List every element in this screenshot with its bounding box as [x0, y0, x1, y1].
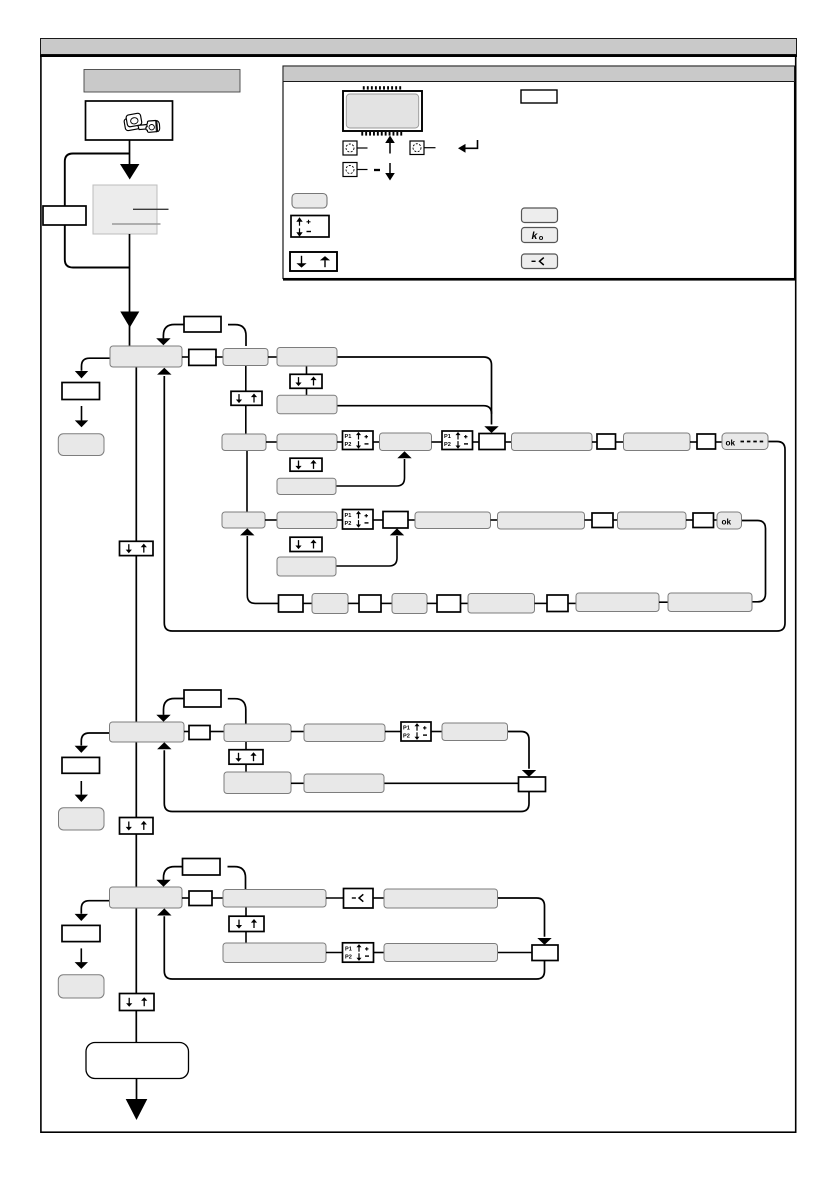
wire box3 down chain [306, 366, 308, 395]
legend thick bottom rule [283, 278, 796, 281]
conn E3-w3 [686, 519, 693, 521]
s2 left label box [62, 757, 100, 773]
s1 jump wire right into box2 [228, 325, 246, 346]
s3 back icon box [344, 889, 374, 909]
row3 boxB3 [277, 512, 337, 529]
start box (key press) [86, 101, 173, 140]
s1 gray under boxB [277, 478, 336, 494]
LCD display inner [346, 94, 418, 128]
wire row4 up into boxA3 [247, 536, 278, 603]
left bypass loop wire [65, 154, 130, 268]
s2 return loop wire [164, 750, 529, 811]
legend header gray bar [283, 66, 795, 82]
row4 gray 1 [312, 594, 348, 614]
end terminal rounded box [86, 1043, 189, 1079]
row4 gray 2 [392, 594, 427, 614]
conn s3 pp5-g2 [373, 952, 384, 954]
s3 row1 white node [189, 891, 212, 906]
s1 trunk dua box [120, 541, 154, 555]
conn w2-E3 [613, 519, 618, 521]
s1 gray under boxB3 [277, 557, 336, 576]
arrow into left label [75, 371, 88, 378]
svg-text:ok: ok [726, 439, 736, 448]
conn [659, 601, 668, 603]
conn [348, 602, 359, 604]
display text line 2 [112, 223, 161, 225]
s3 left gray result box [58, 975, 104, 998]
conn menu3-white [182, 897, 189, 899]
s2 boxB2 [224, 724, 291, 742]
svg-text:o: o [539, 233, 544, 242]
s3 jump wire right into boxB3s [228, 867, 246, 890]
row2 boxE [624, 433, 691, 451]
menu1 left elbow wire [82, 358, 111, 371]
row2 white node 2 [597, 434, 616, 449]
initial display state box [93, 185, 157, 234]
s3 boxB3s [223, 890, 326, 908]
s2 left arrow wire [80, 781, 82, 795]
s3 jump arrow down [156, 880, 170, 887]
row2 boxB [277, 434, 337, 451]
row3 ok box [717, 512, 742, 529]
s2 dua under B2 [229, 750, 263, 765]
s1 dua box under box2 [231, 391, 262, 405]
arrow up into row3 white [390, 528, 404, 535]
conn B3-pp3 [337, 519, 343, 521]
s1 left gray result box [58, 434, 104, 456]
wire box2 down chain [245, 366, 247, 435]
s2 top jump label box [184, 690, 221, 707]
row2 boxC [380, 433, 432, 451]
s3 left arrow head [75, 962, 88, 969]
row3 P1P2 box [343, 510, 374, 530]
s1 return loop wire [164, 376, 785, 631]
row2 boxA [222, 434, 266, 451]
s2 row1 white node [189, 726, 210, 740]
conn [381, 602, 392, 604]
bypass label box [43, 206, 86, 225]
row4 white 4 [547, 595, 568, 612]
LCD top pins [363, 86, 401, 89]
conn white-B3s [212, 897, 223, 899]
s3 top jump label box [183, 859, 221, 876]
row3 boxD3 [498, 512, 585, 529]
conn B2-C2 [291, 731, 304, 733]
conn pp2-white [473, 441, 480, 443]
conn C-pp2 [432, 441, 443, 443]
s1 dua under boxB [290, 458, 322, 471]
conn pp1-C [373, 441, 380, 443]
s2 return arrow up into menu2 [157, 742, 171, 749]
wire key box to arrow [129, 140, 131, 167]
row4 gray 3 [468, 594, 535, 614]
s3 elbow C3s to collect [498, 898, 545, 937]
end wire [136, 1079, 138, 1102]
legend button 3 [343, 163, 368, 177]
conn pp3-w [373, 519, 383, 521]
legend down arrow [385, 163, 395, 181]
row2 ok dashed box [722, 433, 768, 450]
legend button 1 [343, 141, 368, 155]
s2 row2 gray 2 [304, 774, 384, 793]
row3 white node 3 [693, 513, 714, 528]
conn B3s-icon [326, 897, 344, 899]
menu 1 box [110, 346, 182, 367]
LCD bottom pins [361, 132, 402, 136]
arrow up into boxC [397, 451, 411, 458]
legend minus [374, 169, 380, 171]
s1 left arrow wire [81, 406, 83, 421]
svg-text:ok: ok [722, 518, 732, 527]
s3 P1P2 box [343, 943, 374, 962]
conn E-w3 [690, 441, 697, 443]
legend ko button [522, 228, 558, 243]
s2 jump wire right into boxB2 [228, 699, 246, 724]
arrow into s3 left label [75, 914, 88, 921]
s2 trunk dua box [120, 818, 154, 835]
conn [303, 602, 312, 604]
legend back button [522, 254, 558, 269]
s3 left arrow wire [80, 948, 82, 962]
s1 jump wire left into menu1 [163, 325, 184, 339]
menu2 left elbow wire [81, 733, 109, 746]
conn menu2-white [184, 731, 189, 733]
s3 return loop wire [164, 916, 544, 979]
row4 white 3 [437, 595, 461, 612]
s1 left arrow head [75, 420, 88, 427]
wire box3 long right into collect [337, 357, 492, 425]
row4 gray 4 [576, 593, 659, 612]
s2 P1P2 box [401, 722, 431, 741]
conn pp4-D2 [431, 731, 442, 733]
conn icon-C3s [373, 897, 384, 899]
trunk wire menu3 to end [135, 908, 137, 1043]
end big arrow [126, 1099, 148, 1120]
legend frame [283, 66, 795, 279]
s3 left label box [62, 925, 100, 941]
section title gray bar [84, 70, 240, 93]
conn [461, 602, 469, 604]
conn white-B2 [210, 731, 224, 733]
row4 white 1 [279, 595, 304, 612]
big arrow into display state [120, 164, 139, 180]
legend return arrow [458, 140, 478, 153]
trunk wire display to menu 1 [129, 234, 131, 346]
arrow into row2 white node [484, 426, 498, 433]
conn B-pp1 [337, 441, 343, 443]
conn A-B [266, 441, 277, 443]
s1 box3 [277, 348, 337, 367]
s2 left arrow head [75, 795, 88, 802]
s2 row2 gray 1 [224, 772, 291, 794]
conn white-box2 [215, 356, 223, 358]
trunk wire menu2 to menu3 [135, 742, 137, 887]
conn D-w2 [592, 441, 597, 443]
row2 P1P2 box 1 [343, 431, 374, 450]
menu3 left elbow wire [81, 901, 109, 914]
s1 ok loop into row4 [742, 521, 766, 602]
s1 top jump label box [184, 317, 221, 333]
s3 boxC3s [384, 889, 498, 908]
s1 gray under box3 [277, 395, 337, 414]
s2 boxC2 [304, 724, 385, 742]
row4 arrow up [240, 528, 254, 535]
arrow into s2 left label [75, 746, 88, 753]
s1 dua box under box3 [290, 374, 322, 388]
row4 white 2 [359, 595, 381, 612]
menu 2 box [110, 722, 185, 742]
wire underB gray to boxC [336, 459, 405, 486]
s3 row2 wire to collect [498, 952, 533, 954]
s3 row2 gray 1 [223, 943, 326, 963]
s1 return arrow up into menu1 [157, 368, 171, 375]
conn C2-pp4 [385, 731, 401, 733]
wire under-box3 gray to collect [337, 406, 492, 414]
trunk wire menu1 to menu2 [135, 367, 137, 722]
conn w2-E [616, 441, 624, 443]
wire underB3 gray to row3 white [336, 536, 397, 566]
s1 left label box [62, 383, 100, 400]
s3 dua under B3s [229, 916, 264, 931]
conn w-C3 [408, 519, 415, 521]
row3 boxA3 [222, 512, 265, 528]
s2 jump wire left [164, 699, 185, 715]
conn w3-ok [716, 441, 723, 443]
s2 jump arrow down [156, 715, 170, 722]
legend gray button r1 [522, 208, 558, 223]
s2 boxB2 down chain wire [245, 742, 247, 773]
s3 trunk dua box [120, 994, 155, 1011]
thick black rule under header bar [40, 55, 797, 57]
legend plus-minus box [291, 216, 329, 238]
legend small white rect [521, 90, 557, 103]
row2 collect white node [479, 434, 505, 450]
row2 boxD [512, 433, 593, 451]
menu 3 box [110, 887, 183, 908]
s2 elbow D2 to collect [508, 732, 530, 769]
wire boxA down to boxA3 [246, 451, 248, 513]
s1 row1 white node [189, 349, 216, 365]
s2 collect white node [519, 777, 546, 792]
s2 row2 wire to collect [384, 782, 519, 784]
display text line 1 [133, 208, 169, 210]
s3 boxB3s down chain wire [245, 907, 247, 943]
s2 left gray result box [59, 808, 105, 830]
conn [568, 602, 576, 604]
s3 row2 gray 2 [384, 944, 498, 962]
conn D3-w2 [585, 519, 593, 521]
conn [535, 602, 548, 604]
row2 P1P2 box 2 [442, 431, 473, 450]
row3 white node 2 [592, 513, 613, 528]
s1 dua under boxB3 [290, 537, 322, 551]
row4 gray 5 [668, 593, 752, 612]
s3 arrow into collect node [537, 938, 551, 945]
legend up arrow [385, 136, 395, 154]
conn w3-ok3 [714, 519, 718, 521]
conn white-D [505, 441, 512, 443]
LCD display outer [343, 91, 422, 131]
row2 white node 3 [697, 434, 716, 449]
legend gray key button left [292, 194, 327, 209]
legend button 2 [410, 141, 436, 155]
s2 arrow into collect node [522, 770, 536, 777]
legend down-up box [290, 252, 337, 271]
row3 boxE3 [618, 512, 687, 529]
s1 jump arrow down [156, 338, 170, 345]
s3 return arrow up into menu3 [157, 908, 171, 915]
s2 boxD2 [442, 723, 508, 741]
row3 white node 1 [383, 512, 408, 529]
conn C3-D3 [491, 519, 498, 521]
conn box2-box3 [268, 356, 277, 358]
conn A3-B3 [265, 519, 277, 521]
s1 box2 [223, 349, 268, 366]
big arrow into menu 1 [120, 312, 139, 328]
conn s3 row2 g1-pp5 [326, 952, 344, 954]
s3 collect white node [532, 945, 558, 961]
row3 boxC3 [415, 512, 491, 529]
conn menu1-white [182, 356, 189, 358]
conn s2 row2 [291, 782, 304, 784]
top header gray bar [41, 39, 797, 55]
key press hand icon [123, 113, 160, 132]
s3 jump wire left [164, 867, 183, 880]
conn [427, 602, 437, 604]
